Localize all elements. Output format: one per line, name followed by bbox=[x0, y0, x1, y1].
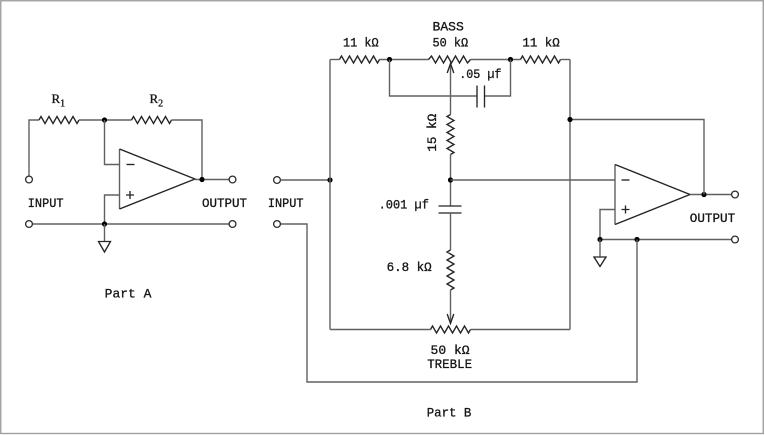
svg-text:BASS: BASS bbox=[433, 20, 464, 34]
resistor 15k bbox=[447, 115, 454, 155]
wire feedback B bbox=[570, 120, 704, 195]
node bass right bbox=[508, 57, 513, 62]
node summing junction A bbox=[102, 117, 107, 122]
potentiometer BASS 50k bbox=[429, 56, 471, 63]
node feedback junction bbox=[567, 117, 572, 122]
svg-text:OUTPUT: OUTPUT bbox=[202, 197, 247, 211]
svg-text:11 kΩ: 11 kΩ bbox=[522, 36, 560, 50]
svg-text:15 kΩ: 15 kΩ bbox=[426, 113, 440, 151]
resistor 11k left bbox=[340, 56, 380, 63]
wire output B bbox=[690, 194, 732, 196]
node output A bbox=[199, 177, 204, 182]
wire lower output rail B bbox=[600, 239, 732, 241]
svg-text:50 kΩ: 50 kΩ bbox=[433, 36, 469, 50]
wire noninverting input A bbox=[105, 195, 120, 224]
wire inverting input B bbox=[451, 179, 616, 181]
svg-text:Part A: Part A bbox=[105, 288, 152, 302]
wire bottom loop B bbox=[280, 224, 637, 382]
svg-text:11 kΩ: 11 kΩ bbox=[343, 36, 379, 50]
wire input B bbox=[280, 179, 330, 181]
svg-text:INPUT: INPUT bbox=[268, 197, 304, 211]
resistor 11k right bbox=[521, 56, 561, 63]
wire bottom rail right bbox=[471, 329, 571, 331]
resistor R1 bbox=[39, 117, 79, 124]
node mid junction B bbox=[448, 177, 453, 182]
wire inverting input A bbox=[105, 120, 120, 165]
wire ground stub A bbox=[104, 224, 106, 242]
terminal output return A bbox=[229, 221, 236, 228]
wire bottom rail left bbox=[330, 329, 431, 331]
terminal output B bbox=[732, 191, 739, 198]
resistor 6.8k bbox=[447, 250, 454, 290]
wire bass cap branch bbox=[390, 60, 511, 97]
node ground junction A bbox=[102, 221, 107, 226]
bass wiper arrow bbox=[447, 64, 454, 115]
wire top rail segment 2 bbox=[380, 59, 429, 61]
wire left rail B bbox=[329, 60, 331, 330]
wire right rail B bbox=[569, 60, 571, 330]
wire cap to 6.8k bbox=[450, 213, 452, 250]
svg-text:.05 µf: .05 µf bbox=[459, 68, 501, 82]
node bass left bbox=[387, 57, 392, 62]
wire noninverting input B bbox=[600, 210, 615, 240]
svg-text:6.8 kΩ: 6.8 kΩ bbox=[387, 261, 433, 275]
wire 15k to node bbox=[450, 155, 452, 207]
op-amp U2 bbox=[615, 165, 690, 225]
wire top rail segment 4 bbox=[561, 59, 571, 61]
wire op-amp A output bbox=[195, 179, 229, 181]
node output B bbox=[701, 192, 706, 197]
node return junction B bbox=[634, 237, 639, 242]
terminal output return B bbox=[732, 236, 739, 243]
wire top rail segment 1 bbox=[330, 59, 340, 61]
svg-text:50 kΩ: 50 kΩ bbox=[431, 344, 471, 358]
capacitor .05uf bbox=[477, 86, 485, 108]
terminal input return A bbox=[26, 221, 33, 228]
wire R1 to R2 bbox=[79, 119, 132, 121]
capacitor .001uf bbox=[439, 206, 462, 213]
wire ground stub B bbox=[599, 240, 601, 258]
node input junction B bbox=[327, 177, 332, 182]
ground A bbox=[99, 242, 111, 253]
node ground junction B bbox=[597, 237, 602, 242]
svg-text:INPUT: INPUT bbox=[28, 197, 64, 211]
terminal input A bbox=[26, 176, 33, 183]
op-amp U1 bbox=[120, 149, 196, 209]
ground B bbox=[594, 257, 606, 267]
terminal input B bbox=[274, 177, 281, 184]
svg-text:Part B: Part B bbox=[427, 407, 472, 421]
svg-text:OUTPUT: OUTPUT bbox=[690, 212, 736, 226]
terminal output A bbox=[229, 176, 236, 183]
terminal input return B bbox=[274, 221, 281, 228]
wire input riser to R1 bbox=[29, 120, 39, 176]
treble wiper arrow bbox=[447, 290, 454, 324]
wire top rail segment 3 bbox=[471, 59, 521, 61]
potentiometer TREBLE 50k bbox=[431, 326, 471, 333]
svg-text:.001 µf: .001 µf bbox=[379, 199, 429, 213]
resistor R2 bbox=[132, 117, 172, 124]
svg-text:TREBLE: TREBLE bbox=[427, 358, 472, 372]
wire R2 to output node bbox=[172, 120, 203, 180]
wire bottom rail A bbox=[32, 223, 229, 225]
